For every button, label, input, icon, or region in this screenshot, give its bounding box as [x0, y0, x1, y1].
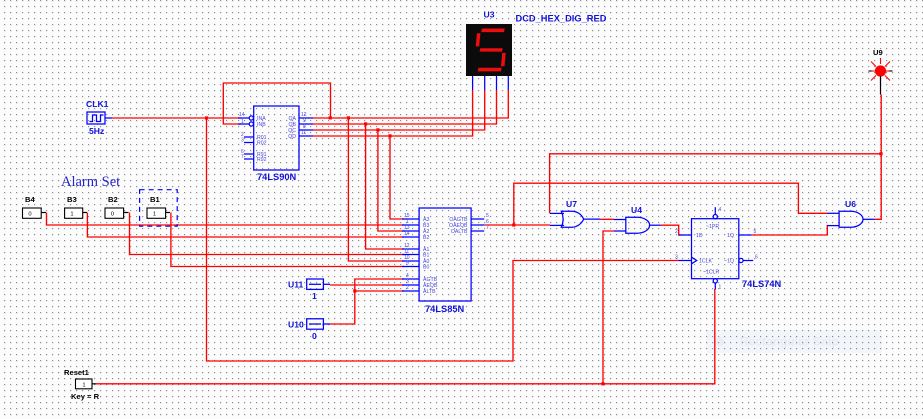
left pin stubs — [402, 218, 419, 220]
wire: switch B1 to 85N B0 — [171, 213, 404, 267]
svg-text:1: 1 — [312, 291, 317, 301]
svg-text:B3: B3 — [67, 195, 77, 204]
svg-text:U3: U3 — [484, 10, 495, 20]
svg-text:U9: U9 — [873, 48, 883, 57]
wire: CLK1 output to 74LS90N INA — [112, 117, 241, 119]
svg-text:U10: U10 — [288, 320, 304, 330]
wire: QB down to 85N A1 — [366, 124, 404, 249]
svg-text:U7: U7 — [566, 199, 577, 209]
svg-text:U4: U4 — [631, 205, 642, 215]
svg-text:74LS90N: 74LS90N — [257, 172, 297, 182]
wire: U7 output to U4 input — [600, 218, 614, 220]
segment f — [476, 33, 481, 46]
pin stub R92 — [244, 158, 254, 160]
svg-text:2: 2 — [675, 229, 678, 235]
wire: reset line riser to U4 lower input — [603, 231, 614, 384]
wire: U10 constant to 85N AGTB — [330, 279, 404, 324]
pin stub R02 — [244, 142, 254, 144]
wire: QA bus to display pin4 — [313, 90, 508, 118]
svg-text:5: 5 — [754, 229, 757, 235]
wire: 74LS74N 1Q to U6 lower input — [752, 226, 829, 235]
svg-text:U11: U11 — [288, 280, 304, 290]
svg-text:14: 14 — [404, 231, 410, 237]
seven segment display U3 — [466, 10, 607, 91]
svg-text:ALTB: ALTB — [423, 289, 436, 295]
flip-flop 74LS74N — [675, 207, 782, 291]
svg-text:OALTB: OALTB — [451, 229, 468, 235]
svg-text:Alarm Set: Alarm Set — [61, 174, 120, 190]
svg-text:1: 1 — [719, 285, 722, 291]
svg-text:3: 3 — [675, 255, 678, 261]
svg-text:~1Q: ~1Q — [724, 259, 734, 265]
wire: QC down to 85N A2 — [378, 130, 404, 231]
pin stub R91 — [244, 153, 254, 155]
wire: branch to 85N ALTB — [355, 290, 404, 292]
wire: QD bus to display pin1 — [313, 90, 473, 136]
wire: switch B2 to 85N B1 — [130, 213, 405, 255]
pin stub QB — [299, 123, 313, 125]
segment d — [478, 68, 502, 72]
svg-text:5Hz: 5Hz — [89, 126, 104, 136]
svg-text:~1CLR: ~1CLR — [703, 270, 720, 276]
junction: on U9 riser — [879, 152, 882, 155]
wire: U4 output to 74LS74N 1D — [661, 225, 681, 235]
and gate U6 — [827, 199, 875, 227]
or gate U7 — [550, 199, 600, 227]
svg-text:1: 1 — [70, 212, 73, 218]
junction on QD — [388, 134, 391, 137]
snipping tool watermark — [706, 330, 882, 353]
svg-text:74LS85N: 74LS85N — [425, 304, 465, 314]
svg-text:9: 9 — [406, 261, 409, 267]
junction: OAEQB branch — [512, 223, 515, 226]
svg-text:B4: B4 — [25, 195, 35, 204]
svg-text:6: 6 — [755, 255, 758, 261]
wire: clock line down to 74LS74N CLK — [207, 118, 680, 361]
junction: feedback tap on QA — [329, 116, 332, 119]
svg-text:CLK1: CLK1 — [86, 99, 109, 109]
svg-text:4: 4 — [719, 207, 722, 213]
svg-text:11: 11 — [404, 249, 409, 255]
wire: QB bus to display pin3 — [313, 90, 497, 124]
svg-text:1D: 1D — [696, 233, 703, 239]
preset pin 4 — [714, 207, 716, 214]
indicator probe U9 — [869, 48, 893, 95]
pin stub QA — [299, 117, 313, 119]
pin stub QC — [299, 129, 313, 131]
svg-text:U6: U6 — [845, 199, 856, 209]
wire: QD down to 85N A3 — [390, 136, 404, 219]
svg-text:B1: B1 — [423, 253, 429, 259]
svg-text:1: 1 — [153, 212, 156, 218]
junction: clock tap — [205, 116, 208, 119]
wire: QC bus to display pin2 — [313, 90, 485, 130]
svg-text:B2: B2 — [423, 235, 429, 241]
wire: switch B3 to 85N B2 — [87, 213, 404, 238]
right pin stubs — [471, 218, 484, 220]
junction: reset tap for U4 — [601, 382, 604, 385]
svg-text:R92: R92 — [257, 157, 267, 163]
svg-text:74LS74N: 74LS74N — [742, 279, 782, 289]
wire: U6 output up to U9 probe — [875, 95, 881, 220]
switch B2 — [105, 195, 129, 218]
svg-text:7: 7 — [486, 225, 489, 231]
pin stub INA — [238, 117, 249, 119]
counter 74LS90N — [238, 106, 313, 182]
svg-text:1CLK: 1CLK — [699, 259, 713, 265]
svg-text:Reset1: Reset1 — [64, 368, 90, 377]
svg-text:2: 2 — [406, 285, 409, 291]
wire: U11 constant to 85N AEQB — [330, 284, 404, 286]
switch B1 selection box — [140, 190, 178, 227]
1D pin 2 — [679, 234, 692, 236]
constant U11 — [288, 279, 330, 301]
svg-text:0: 0 — [28, 212, 31, 218]
switch B3 — [65, 195, 87, 218]
wire: OAEQB branch up and over to U6 upper input — [514, 183, 828, 225]
svg-text:3: 3 — [241, 138, 244, 144]
and gate U4 — [614, 205, 661, 233]
svg-text:1Q: 1Q — [727, 233, 734, 239]
svg-text:~1PR: ~1PR — [706, 224, 719, 230]
svg-text:Key = R: Key = R — [71, 392, 100, 401]
svg-text:B2: B2 — [108, 195, 118, 204]
svg-text:1: 1 — [241, 119, 244, 125]
segment a — [481, 29, 505, 33]
svg-text:14: 14 — [239, 112, 245, 118]
display pin stubs — [472, 76, 474, 90]
svg-text:QD: QD — [288, 134, 296, 140]
wire: Reset1 to 74LS74N ~1CLR — [95, 289, 715, 384]
svg-text:7: 7 — [241, 154, 244, 160]
~1Q pin 6 — [739, 258, 743, 262]
pin stub QD — [299, 135, 313, 137]
svg-text:INB: INB — [257, 122, 266, 128]
svg-text:11: 11 — [301, 130, 306, 136]
svg-text:B1: B1 — [150, 195, 160, 204]
1CLK pin 3 — [679, 260, 692, 262]
wire: QA feedback loop to INB — [223, 83, 330, 124]
svg-text:B0: B0 — [423, 265, 429, 271]
segment c — [501, 53, 506, 66]
clock source CLK1 — [86, 99, 112, 136]
junction on QC — [376, 128, 379, 131]
constant U10 — [288, 319, 330, 341]
wire: QA down to 85N A0 — [348, 118, 404, 261]
pin stub INB — [238, 123, 249, 125]
svg-text:DCD_HEX_DIG_RED: DCD_HEX_DIG_RED — [516, 14, 607, 24]
svg-text:R02: R02 — [257, 141, 267, 147]
svg-text:0: 0 — [111, 212, 114, 218]
switch B1 — [147, 195, 170, 218]
junction: U10 riser at ALTB — [353, 289, 356, 292]
clear pin 1 — [713, 279, 717, 283]
wire: U9 line to U7 upper input — [550, 154, 882, 214]
junction on QB — [364, 122, 367, 125]
junction on QA — [347, 116, 350, 119]
wire: 85N OAEQB to U7 lower input — [484, 224, 550, 226]
pin stub R01 — [244, 136, 254, 138]
svg-text:1: 1 — [82, 382, 85, 388]
switch Reset1 — [64, 368, 100, 401]
wire: switch B4 to 85N B3 — [47, 213, 405, 226]
svg-text:0: 0 — [312, 331, 317, 341]
comparator 74LS85N — [402, 208, 489, 314]
segment g — [480, 48, 503, 51]
1Q pin 5 — [739, 234, 752, 236]
switch B4 — [23, 195, 47, 218]
